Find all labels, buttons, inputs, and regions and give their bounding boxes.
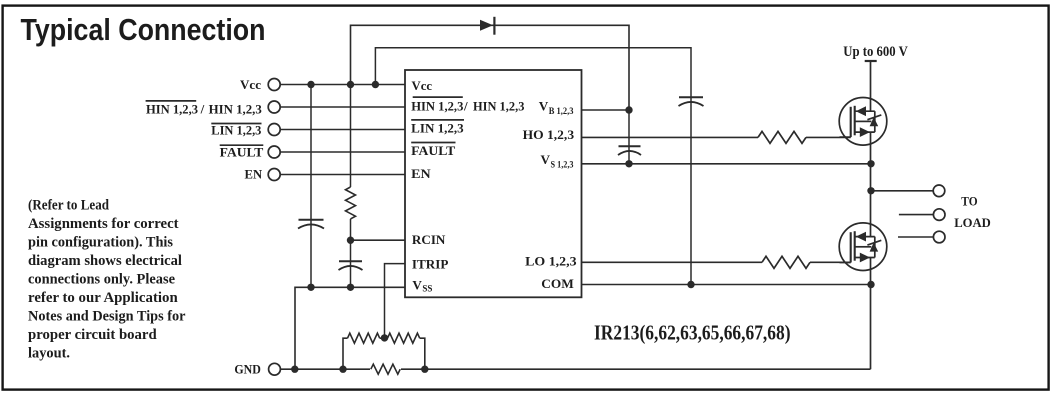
input terminal FAULT [220,144,281,159]
resistor R1 (RCIN) [346,187,356,219]
resistor R3 (ITRIP divider upper right) [388,333,420,343]
svg-text:RCIN: RCIN [412,232,446,247]
svg-text:/: / [463,99,468,114]
svg-text:COM: COM [541,276,574,291]
wire divider middle [380,337,388,339]
HV bus terminal [865,60,877,62]
wire FAULT input to U1 [280,151,405,153]
wire Vcc to bootstrap diode rail [351,25,630,110]
svg-text:S 1,2,3: S 1,2,3 [551,160,574,170]
wire HIN input to U1 [280,106,405,108]
svg-text:B 1,2,3: B 1,2,3 [549,107,574,117]
resistor R6 (low-side gate) [762,256,810,268]
note text [28,197,186,361]
svg-text:V: V [412,278,422,293]
svg-text:HO 1,2,3: HO 1,2,3 [523,127,575,142]
svg-text:IR213(6,62,63,65,66,67,68): IR213(6,62,63,65,66,67,68) [594,320,791,344]
U1 pin label FAULT [411,143,455,159]
resistor R4 (current sense, on GND rail) [370,364,401,375]
wire Vcc input to U1 [280,84,405,86]
svg-text:Vcc: Vcc [412,78,433,93]
svg-text:LIN 1,2,3: LIN 1,2,3 [211,123,262,138]
svg-text:(Refer to Lead: (Refer to Lead [28,197,110,213]
op-amp U1 IR213x driver IC body [405,70,582,297]
input terminal EN [245,167,281,182]
wire LIN input to U1 [280,129,405,131]
svg-text:pin configuration). This: pin configuration). This [28,234,173,250]
wire Vcc bypass branch [310,85,312,288]
wire gate resistor to Q2 gate [810,261,851,263]
wire RCIN to U1 [351,239,406,241]
wire Q1 source to phase node [870,132,872,237]
ground terminal GND [234,362,280,377]
svg-text:Vcc: Vcc [240,77,261,92]
svg-text:proper circuit board: proper circuit board [28,327,157,343]
wire resistor to RCIN node [350,219,352,240]
U1 pin label HIN 1,2,3 / HIN 1,2,3 [411,97,525,114]
svg-text:diagram shows electrical: diagram shows electrical [28,253,182,269]
transistor Q1 (high-side MOSFET) [839,98,887,146]
load terminal 3 [933,231,945,243]
load terminal 1 [933,185,945,197]
U1 pin label LIN 1,2,3 [411,120,464,136]
U1 pin label VB 1,2,3 [539,99,574,117]
transistor Q2 (low-side MOSFET) [839,223,887,271]
wire VS to phase node [582,163,871,165]
capacitor C2 (RCIN-Vss) [339,260,362,262]
svg-text:LIN 1,2,3: LIN 1,2,3 [411,121,464,136]
svg-text:connections only. Please: connections only. Please [28,272,175,288]
resistor R5 (high-side gate) [758,131,806,143]
wire COM return [582,284,871,286]
wire RCIN node to Vss rail [350,240,352,287]
svg-text:TO: TO [961,194,977,209]
svg-text:V: V [539,99,549,114]
load terminal 2 [933,209,945,221]
svg-text:GND: GND [234,362,261,377]
resistor R2 (ITRIP divider upper left) [348,333,380,343]
svg-text:SS: SS [422,284,432,294]
svg-text:LOAD: LOAD [954,215,991,230]
wire EN input to U1 [280,174,405,176]
wire ITRIP to divider tap [385,264,406,338]
input terminal LIN [211,123,280,138]
wire load stub 2 [899,214,934,216]
U1 pin label VS 1,2,3 [541,152,574,170]
wire divider loop right [420,338,425,369]
svg-text:HIN 1,2,3: HIN 1,2,3 [146,102,198,117]
wire phase output to load [871,190,934,192]
svg-text:LO 1,2,3: LO 1,2,3 [525,253,577,268]
svg-text:EN: EN [411,166,431,181]
wire bootstrap cap branch [628,110,630,164]
wire HV bus to Q1 drain [870,61,872,111]
svg-text:Notes and Design Tips for: Notes and Design Tips for [28,309,186,325]
wire Q2 source to GND rail [870,258,872,370]
wire Vcc to COM decoupling rail [375,48,691,285]
wire HO to gate resistor [582,136,759,138]
wire divider loop left [343,338,348,369]
svg-text:/: / [200,102,205,117]
svg-text:HIN 1,2,3: HIN 1,2,3 [209,102,263,117]
svg-text:layout.: layout. [28,346,70,362]
svg-text:FAULT: FAULT [220,144,264,159]
svg-text:ITRIP: ITRIP [412,256,449,271]
wire Vss rail [295,287,405,369]
svg-text:refer to our Application: refer to our Application [28,290,178,306]
wire LO to gate resistor [582,261,763,263]
svg-text:FAULT: FAULT [411,143,455,158]
diode D1 bootstrap [480,17,494,35]
wire GND rail [280,368,870,370]
svg-text:HIN 1,2,3: HIN 1,2,3 [473,99,525,114]
wire load stub 3 [898,236,933,238]
input terminal HIN [146,101,281,117]
wire gate resistor to Q1 gate [806,136,851,138]
svg-text:EN: EN [245,167,263,182]
capacitor C4 (bootstrap VB-VS) [619,145,641,147]
U1 pin label Vss [412,278,432,295]
input terminal Vcc [240,77,280,92]
svg-text:V: V [541,152,551,167]
svg-text:Typical Connection: Typical Connection [21,13,266,47]
wire VB to bootstrap node [582,109,630,111]
label TO LOAD [954,194,991,230]
svg-text:Up to 600 V: Up to 600 V [843,44,908,60]
capacitor C1 (Vcc-Vss bypass) [299,219,324,221]
svg-text:HIN 1,2,3: HIN 1,2,3 [411,99,464,114]
capacitor C3 (Vcc-COM) [679,96,703,98]
svg-text:Assignments for correct: Assignments for correct [28,216,179,232]
wire Vcc to RCIN branch [350,85,352,188]
